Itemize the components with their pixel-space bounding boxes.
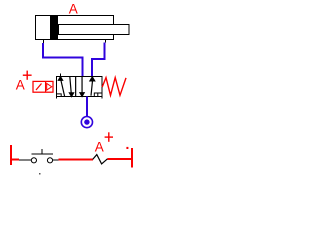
anchor dot (red): [126, 147, 128, 149]
solenoid coil A+ zigzag: [93, 155, 108, 164]
label anchor dot: [39, 173, 41, 175]
wire switch to coil (black): [53, 159, 59, 161]
cylinder right port stub: [105, 40, 107, 43]
exhaust notch bottom-left corner: [57, 94, 62, 97]
exhaust notch bottom-right corner (double cell): [94, 93, 102, 97]
wire switch to coil (red): [59, 159, 93, 161]
piston: [50, 16, 58, 39]
pushbutton left terminal: [31, 158, 36, 163]
valve inner vertical line 1: [75, 77, 77, 97]
contact bridge bar: [32, 153, 54, 155]
wire rail to switch (red): [11, 159, 19, 161]
cylinder left port stub: [43, 40, 45, 44]
pushbutton right terminal: [47, 158, 52, 163]
wire to switch (black): [19, 159, 31, 161]
valve inner vertical flow line with down arrow: [80, 77, 84, 97]
right chamber flow line with up arrow: [90, 77, 95, 96]
return spring (red): [102, 78, 126, 96]
svg-text:A: A: [69, 1, 78, 16]
valve pilot port stub top: [60, 73, 62, 76]
piston rod: [59, 25, 130, 35]
right power rail (red): [131, 148, 133, 168]
left chamber flow line with up arrow: [58, 77, 64, 97]
tube cylinder-right to valve: [92, 43, 105, 77]
left power rail (red): [10, 145, 12, 165]
compressed air source: [81, 117, 92, 128]
actuator stem: [41, 149, 43, 154]
valve body outer: [57, 77, 103, 97]
left chamber flow line with down arrow: [69, 77, 73, 97]
wire coil to right rail (red): [108, 158, 132, 160]
valve right edge lower stub: [101, 97, 103, 99]
cylinder A body: [36, 16, 114, 40]
valve left edge lower stub: [56, 97, 58, 99]
solenoid pilot box (red): [33, 81, 53, 92]
svg-text:A: A: [16, 77, 25, 92]
tube valve to air source: [86, 97, 88, 118]
svg-text:A: A: [95, 139, 104, 154]
tube cylinder-left to valve: [43, 43, 83, 76]
